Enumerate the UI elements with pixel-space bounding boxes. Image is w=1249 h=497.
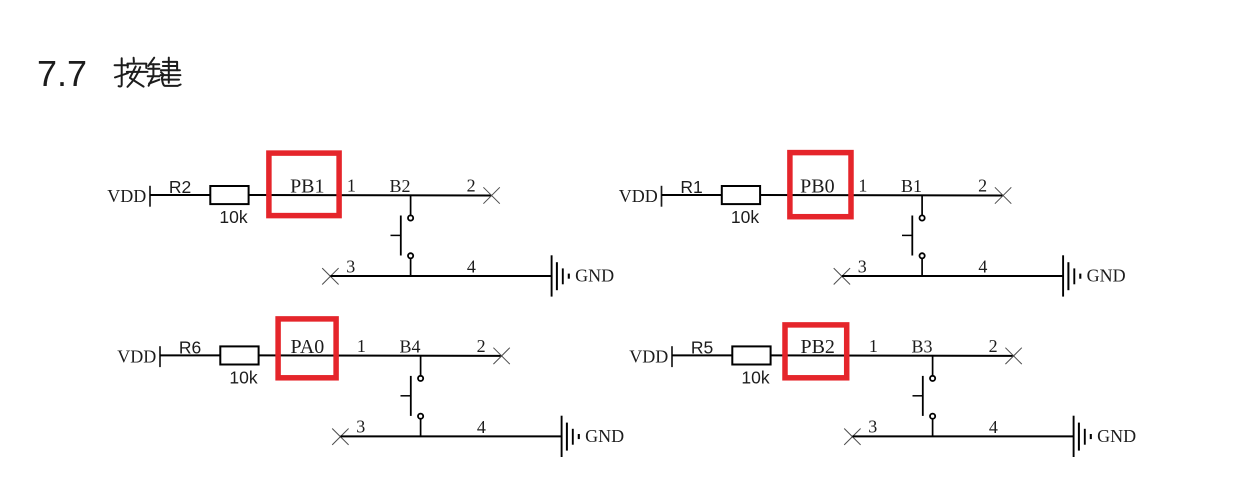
- svg-text:R5: R5: [691, 338, 713, 358]
- svg-text:10k: 10k: [219, 207, 247, 227]
- no-connect cross at pin 2: [995, 187, 1011, 203]
- svg-text:R1: R1: [680, 177, 702, 197]
- svg-text:2: 2: [978, 176, 987, 196]
- wire: pin 3 to ground: [330, 275, 551, 277]
- resistor R2 10k: [169, 177, 249, 227]
- svg-text:1: 1: [869, 336, 878, 356]
- wire: resistor to pin 2 no-connect: [771, 354, 1014, 357]
- svg-text:PB0: PB0: [800, 176, 834, 198]
- svg-text:2: 2: [989, 336, 998, 356]
- wire: VDD flag to resistor: [150, 194, 210, 196]
- svg-text:GND: GND: [585, 426, 624, 446]
- power flag VDD (circuit 3): [117, 346, 160, 367]
- red highlight box around net PB1: [269, 153, 339, 216]
- red highlight box around net PB0: [790, 153, 851, 217]
- power flag VDD (circuit 1): [107, 186, 150, 207]
- wire: resistor to pin 2 no-connect: [249, 194, 492, 197]
- heading character 按 (press): [115, 58, 148, 87]
- svg-text:PA0: PA0: [291, 336, 325, 358]
- svg-text:VDD: VDD: [619, 186, 658, 206]
- ground symbol GND: [1074, 416, 1091, 457]
- pushbutton B1: [901, 176, 925, 276]
- resistor R5 10k: [691, 338, 771, 388]
- wire: resistor to pin 2 no-connect: [259, 354, 502, 357]
- svg-text:3: 3: [346, 256, 355, 276]
- power flag VDD (circuit 2): [619, 186, 662, 207]
- red highlight box around net PA0: [278, 319, 336, 378]
- pushbutton B3: [911, 337, 935, 437]
- svg-text:R2: R2: [169, 177, 191, 197]
- svg-text:GND: GND: [1097, 426, 1136, 446]
- svg-text:VDD: VDD: [107, 186, 146, 206]
- ground symbol GND: [562, 416, 579, 457]
- svg-text:1: 1: [858, 176, 867, 196]
- heading character 键 (key): [148, 58, 181, 86]
- no-connect cross at pin 2: [493, 348, 509, 364]
- svg-text:4: 4: [477, 417, 486, 437]
- wire: pin 3 to ground: [842, 275, 1063, 277]
- svg-text:B4: B4: [399, 337, 420, 357]
- svg-text:4: 4: [467, 257, 476, 277]
- svg-text:B3: B3: [911, 337, 932, 357]
- ground symbol GND: [1063, 255, 1080, 296]
- svg-text:2: 2: [477, 336, 486, 356]
- svg-text:GND: GND: [1087, 266, 1126, 286]
- resistor R6 10k: [179, 338, 259, 388]
- svg-text:1: 1: [347, 176, 356, 196]
- svg-text:R6: R6: [179, 338, 201, 358]
- wire: VDD flag to resistor: [160, 354, 220, 356]
- svg-text:3: 3: [356, 417, 365, 437]
- wire: resistor to pin 2 no-connect: [761, 194, 1004, 197]
- svg-text:PB2: PB2: [800, 336, 834, 358]
- svg-text:GND: GND: [575, 266, 614, 286]
- svg-text:4: 4: [978, 257, 987, 277]
- svg-text:3: 3: [858, 256, 867, 276]
- no-connect cross at pin 2: [483, 187, 499, 203]
- svg-text:VDD: VDD: [629, 346, 668, 366]
- no-connect cross at pin 3: [844, 429, 860, 445]
- no-connect cross at pin 3: [332, 429, 348, 445]
- svg-text:VDD: VDD: [117, 346, 156, 366]
- no-connect cross at pin 3: [322, 268, 338, 284]
- wire: pin 3 to ground: [852, 435, 1073, 437]
- no-connect cross at pin 3: [834, 268, 850, 284]
- power flag VDD (circuit 4): [629, 346, 672, 367]
- svg-text:PB1: PB1: [290, 176, 324, 198]
- svg-text:B2: B2: [389, 176, 410, 196]
- svg-text:10k: 10k: [741, 367, 769, 387]
- svg-text:10k: 10k: [229, 367, 257, 387]
- ground symbol GND: [552, 255, 569, 296]
- svg-text:7.7: 7.7: [37, 53, 87, 94]
- resistor R1 10k: [680, 177, 760, 227]
- svg-text:1: 1: [357, 336, 366, 356]
- wire: pin 3 to ground: [340, 435, 561, 437]
- wire: VDD flag to resistor: [672, 354, 732, 356]
- pushbutton B2: [389, 176, 413, 276]
- svg-text:3: 3: [868, 417, 877, 437]
- svg-text:10k: 10k: [731, 207, 759, 227]
- svg-text:B1: B1: [901, 176, 922, 196]
- pushbutton B4: [399, 337, 423, 437]
- svg-text:4: 4: [989, 417, 998, 437]
- svg-text:2: 2: [467, 176, 476, 196]
- red highlight box around net PB2: [785, 325, 847, 378]
- no-connect cross at pin 2: [1005, 348, 1021, 364]
- wire: VDD flag to resistor: [662, 194, 722, 196]
